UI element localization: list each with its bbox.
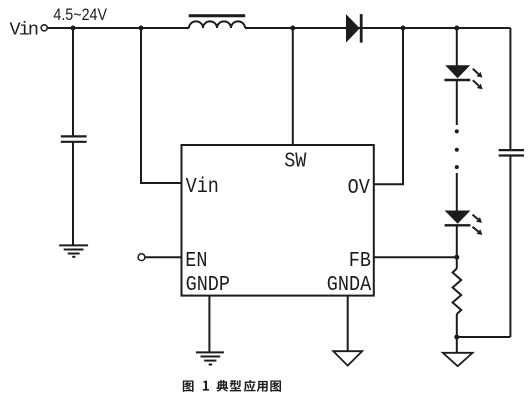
svg-text:GNDP: GNDP xyxy=(186,272,230,297)
svg-text:GNDA: GNDA xyxy=(327,272,371,297)
svg-text:EN: EN xyxy=(185,248,207,273)
svg-text:4.5~24V: 4.5~24V xyxy=(53,6,107,24)
svg-text:Vin: Vin xyxy=(186,174,219,199)
svg-text:Vin: Vin xyxy=(10,18,38,40)
svg-text:OV: OV xyxy=(348,175,370,200)
svg-text:FB: FB xyxy=(349,248,371,273)
svg-text:SW: SW xyxy=(284,148,306,173)
